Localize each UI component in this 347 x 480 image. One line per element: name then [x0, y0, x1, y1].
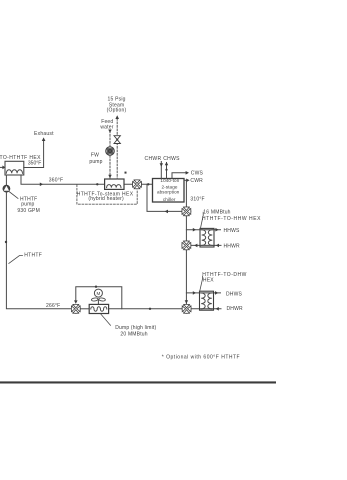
wire chiller outlet 310F pipe [185, 180, 188, 304]
valve three-way dump valve [71, 304, 80, 313]
wire feedwater dashed line [108, 130, 111, 179]
wire bottom return line left of dump [80, 308, 89, 310]
wire CHWR line [160, 162, 163, 179]
svg-text:chiller: chiller [163, 197, 176, 202]
wire pump suction stub [5, 175, 7, 185]
svg-text:M: M [96, 291, 100, 296]
rule bottom divider [0, 381, 276, 383]
heat exchanger HTHTF-to-HHW HEX [200, 228, 214, 247]
wire DHWS branch [186, 291, 220, 295]
svg-text:(Option): (Option) [107, 108, 127, 114]
svg-text:266°F: 266°F [46, 303, 60, 309]
valve DHW mixing valve [182, 304, 191, 313]
label HTHTF-TO-DHW HEX [200, 272, 247, 291]
svg-text:HEX: HEX [203, 278, 214, 284]
valve chiller outlet three-way valve [182, 207, 191, 216]
label FW pump [89, 152, 102, 165]
label HTHTF pipe [9, 252, 42, 263]
label 15 Psig Steam (Option) [107, 97, 127, 114]
svg-text:20 MMBtuh: 20 MMBtuh [120, 331, 147, 337]
valve HHWR valve [182, 241, 191, 250]
svg-text:CWR: CWR [190, 178, 203, 184]
svg-text:HTHTF: HTHTF [24, 252, 42, 258]
valve hybrid three-way valve [132, 180, 141, 189]
svg-text:DHWS: DHWS [226, 291, 243, 297]
svg-text:DHWR: DHWR [227, 306, 244, 312]
svg-text:Dump (high limit): Dump (high limit) [115, 325, 156, 331]
svg-text:(hybrid heater): (hybrid heater) [88, 196, 124, 202]
chiller absorption chiller box [153, 178, 185, 202]
wire CWR line [184, 179, 190, 183]
label Feed water [100, 119, 113, 131]
wire exhaust inlet stub [0, 166, 5, 170]
wire steam dashed line [115, 115, 119, 179]
svg-text:HHWR: HHWR [224, 243, 241, 249]
svg-text:pump: pump [89, 159, 102, 165]
heat exchanger HTHTF-to-steam HEX [105, 179, 124, 189]
svg-text:930 GPM: 930 GPM [17, 208, 40, 214]
wire bottom return line right of dump [109, 308, 182, 310]
svg-text:CHWR CHWS: CHWR CHWS [145, 156, 181, 162]
svg-text:absorption: absorption [157, 190, 180, 195]
wire main 360F supply line [21, 175, 153, 186]
valve steam valve [114, 136, 120, 144]
svg-text:310°F: 310°F [190, 196, 204, 202]
label HTHTF pump 930 GPM [9, 192, 40, 215]
svg-text:Exhaust: Exhaust [34, 131, 54, 137]
svg-text:1040-ton: 1040-ton [160, 178, 179, 183]
wire HHWS branch [186, 228, 220, 232]
svg-text:16 MMBtuh: 16 MMBtuh [203, 210, 230, 216]
svg-text:pump: pump [21, 201, 34, 207]
label Dump (high limit) 20 MMBtuh [101, 314, 157, 338]
wire left return pipe [5, 192, 72, 309]
enclosure hybrid heater dashed box [77, 185, 137, 204]
svg-text:water: water [100, 125, 113, 131]
wire chiller bypass branch [147, 184, 182, 213]
svg-text:HTHTF-TO-HHW HEX: HTHTF-TO-HHW HEX [202, 216, 261, 222]
svg-text:* Optional with 600°F HTHTF: * Optional with 600°F HTHTF [162, 354, 240, 360]
heat exchanger dump radiator [89, 304, 108, 313]
svg-text:350°F: 350°F [28, 160, 41, 166]
svg-text:HHWS: HHWS [224, 228, 241, 234]
label HTHTF-To-steam HEX (hybrid heater) [77, 192, 134, 202]
label 16 MMBtuh HTHTF-TO-HHW HEX [201, 210, 261, 228]
heat exchanger HTHTF-to-DHW HEX [200, 291, 214, 310]
svg-text:360°F: 360°F [49, 177, 63, 183]
pump HTHTF pump [3, 185, 10, 192]
wire dump bypass [74, 286, 122, 309]
wire CWS line [172, 171, 189, 179]
wire DHWR line [191, 307, 221, 311]
wire exhaust duct [24, 137, 46, 167]
fan dump fan motor [91, 289, 105, 304]
wire CHWS line [165, 162, 168, 179]
asterisk marker [125, 172, 127, 174]
svg-text:CWS: CWS [191, 171, 204, 177]
wire HHWR line [191, 244, 221, 248]
pump FW pump [106, 147, 114, 155]
svg-text:FW: FW [91, 152, 99, 158]
heat exchanger exhaust-to-HTHTF HEX [5, 161, 24, 175]
